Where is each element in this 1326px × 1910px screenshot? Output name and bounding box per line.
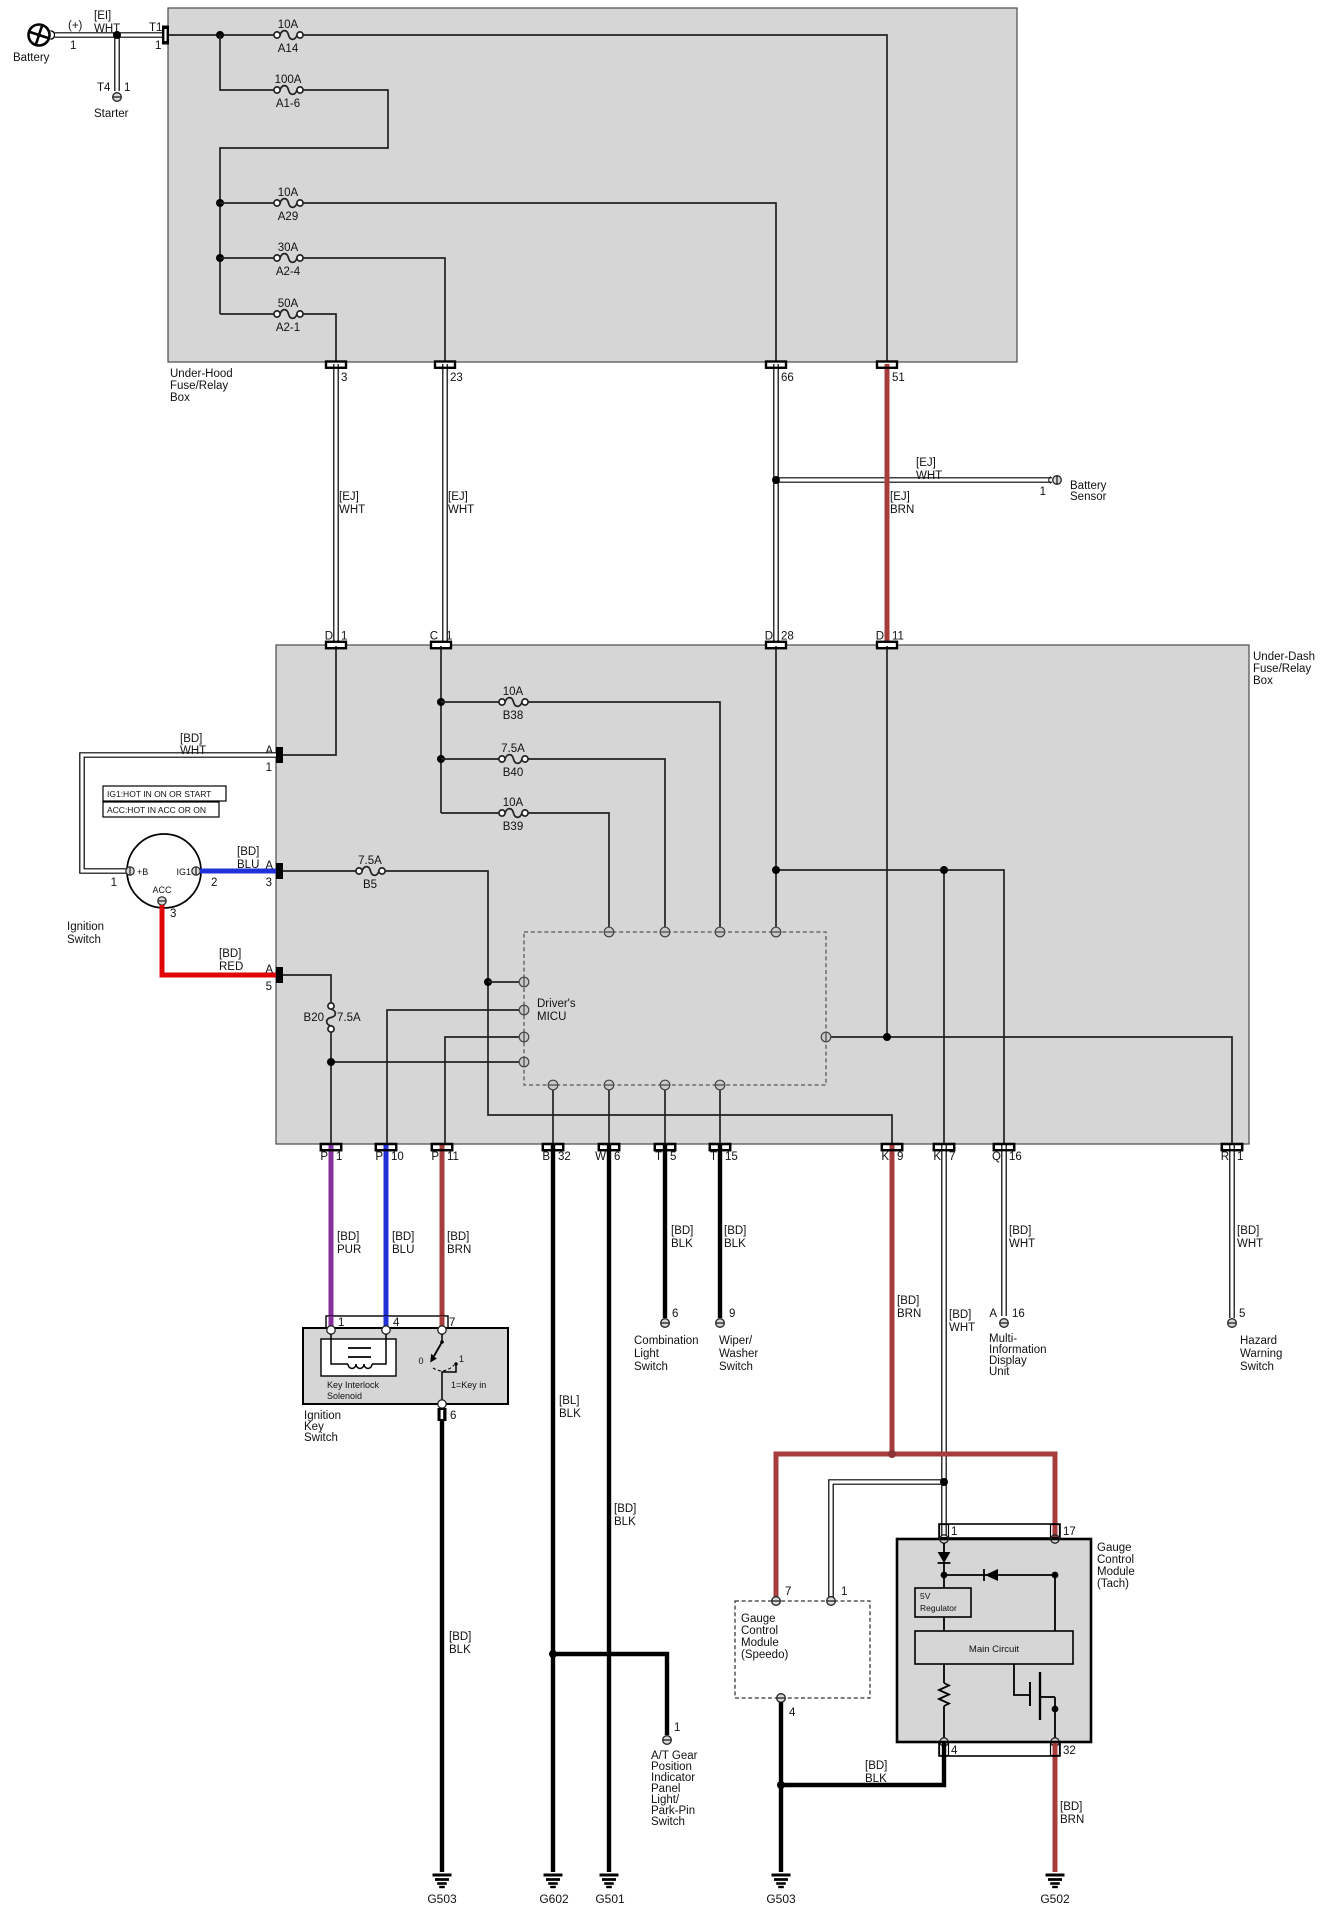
svg-text:Ignition: Ignition: [67, 921, 104, 933]
svg-text:10A: 10A: [278, 19, 299, 31]
AT gear position indicator panel light park-pin switch: [651, 1722, 698, 1828]
svg-text:1: 1: [338, 1317, 344, 1329]
svg-text:A14: A14: [278, 43, 299, 55]
connector A5: [265, 964, 283, 993]
svg-text:T4: T4: [97, 82, 111, 94]
combination light switch: [634, 1308, 699, 1373]
svg-text:A: A: [265, 860, 273, 872]
svg-text:Switch: Switch: [634, 1361, 668, 1373]
fuse 10A A29: [274, 187, 303, 223]
connector P11: [431, 1144, 459, 1163]
svg-text:Under-Dash: Under-Dash: [1253, 651, 1315, 663]
note box IG1 hot: [103, 786, 226, 801]
svg-text:1: 1: [155, 40, 161, 52]
svg-text:Switch: Switch: [651, 1816, 685, 1828]
svg-text:B39: B39: [503, 821, 523, 833]
MICU pin top 3: [715, 927, 725, 937]
connector T1: [149, 22, 169, 52]
svg-text:10A: 10A: [278, 187, 299, 199]
svg-text:B40: B40: [503, 767, 523, 779]
connector Q16: [992, 1144, 1022, 1163]
MICU pin bottom 4: [715, 1080, 725, 1090]
svg-text:A29: A29: [278, 211, 298, 223]
svg-text:+B: +B: [137, 867, 148, 877]
wire bus to fuse A2-1: [220, 313, 274, 315]
svg-text:B5: B5: [363, 879, 377, 891]
svg-text:G502: G502: [1040, 1892, 1070, 1906]
svg-text:(Tach): (Tach): [1097, 1578, 1129, 1590]
svg-text:30A: 30A: [278, 242, 299, 254]
svg-text:[BD]: [BD]: [447, 1231, 469, 1243]
wire to starter (WHT): [97, 35, 130, 94]
svg-text:P: P: [375, 1151, 383, 1163]
svg-text:K: K: [933, 1151, 941, 1163]
MICU pin left 4: [519, 1057, 529, 1067]
svg-text:66: 66: [781, 372, 794, 384]
svg-text:Control: Control: [741, 1625, 778, 1637]
svg-text:23: 23: [450, 372, 463, 384]
svg-text:10: 10: [391, 1151, 404, 1163]
svg-text:W: W: [595, 1151, 606, 1163]
note box ACC hot: [103, 802, 219, 817]
wire MICU pin to W6: [608, 1090, 610, 1145]
svg-text:[BD]: [BD]: [865, 1760, 887, 1772]
svg-text:BLK: BLK: [449, 1644, 471, 1656]
svg-text:A1-6: A1-6: [276, 98, 300, 110]
svg-text:Switch: Switch: [304, 1432, 338, 1444]
ground G602: [539, 1875, 569, 1906]
svg-text:Module: Module: [741, 1637, 779, 1649]
svg-text:1: 1: [336, 1151, 342, 1163]
svg-text:BRN: BRN: [447, 1244, 471, 1256]
wire MICU pin2 to P10: [387, 1010, 519, 1145]
wire IG1 to connector A3 (BD BLU): [200, 846, 276, 871]
svg-text:BRN: BRN: [897, 1308, 921, 1320]
svg-text:Switch: Switch: [1240, 1361, 1274, 1373]
MICU pin top 1: [604, 927, 614, 937]
svg-text:T: T: [655, 1151, 662, 1163]
svg-text:Box: Box: [1253, 675, 1273, 687]
wire W6 to G501 (BD BLK): [609, 1145, 636, 1872]
svg-text:0: 0: [418, 1356, 423, 1366]
svg-text:Hazard: Hazard: [1240, 1335, 1277, 1347]
svg-text:[BD]: [BD]: [897, 1295, 919, 1307]
gauge control module tach: [897, 1539, 1135, 1742]
wire K7 down (BD WHT): [944, 1145, 975, 1536]
node regulator junction: [941, 1572, 948, 1579]
wire bus to fuse A2-4: [220, 257, 274, 259]
svg-text:51: 51: [892, 372, 905, 384]
node K7 junction: [940, 866, 948, 874]
svg-text:50A: 50A: [278, 298, 299, 310]
svg-text:K: K: [881, 1151, 889, 1163]
wire junction to 5V regulator: [943, 1575, 945, 1588]
terminal 3: [326, 362, 347, 385]
node B20 junction: [327, 1058, 335, 1066]
svg-text:[BL]: [BL]: [559, 1395, 579, 1407]
svg-text:Box: Box: [170, 392, 190, 404]
svg-text:WHT: WHT: [949, 1322, 975, 1334]
svg-text:Battery: Battery: [13, 52, 50, 64]
under-hood fuse/relay box: [168, 8, 1017, 404]
MICU pin left 3: [519, 1032, 529, 1042]
svg-text:Combination: Combination: [634, 1335, 699, 1347]
svg-text:Sensor: Sensor: [1070, 491, 1107, 503]
wire B32 to G602 (BL BLK): [553, 1145, 581, 1872]
wire terminal 66 to D28 (EJ WHT): [773, 364, 779, 642]
wire P1 to key switch (BD PUR): [331, 1145, 361, 1326]
wire battery to T1 (WHT): [55, 32, 162, 38]
wiper washer switch: [716, 1308, 759, 1373]
connector R1: [1221, 1144, 1244, 1163]
wire fuse B5 down to K9 feed: [385, 871, 892, 1145]
under-dash fuse/relay box: [276, 645, 1315, 1144]
svg-text:4: 4: [789, 1707, 796, 1719]
wire K9 to gauge modules (BD BRN): [776, 1454, 1055, 1597]
svg-text:[EJ]: [EJ]: [890, 491, 910, 503]
wire P10 to key switch (BD BLU): [386, 1145, 414, 1326]
svg-text:[EJ]: [EJ]: [916, 457, 936, 469]
svg-text:6: 6: [450, 1410, 456, 1422]
fuse 50A A2-1: [274, 298, 303, 334]
svg-text:T1: T1: [149, 22, 162, 34]
svg-text:Key Interlock: Key Interlock: [327, 1380, 380, 1390]
svg-text:Switch: Switch: [67, 934, 101, 946]
tach bottom connector: [939, 1742, 1076, 1757]
wire pin17 rail to main circuit: [1054, 1575, 1056, 1631]
wire to fuse B38: [441, 701, 499, 703]
wire tach pin4 to ground run (BD BLK): [781, 1743, 944, 1785]
svg-text:Solenoid: Solenoid: [327, 1391, 362, 1401]
wire fuse B39 to MICU: [528, 813, 609, 927]
svg-text:Gauge: Gauge: [741, 1613, 776, 1625]
svg-text:WHT: WHT: [448, 504, 474, 516]
svg-text:A2-1: A2-1: [276, 322, 300, 334]
svg-text:P: P: [320, 1151, 328, 1163]
svg-text:15: 15: [725, 1151, 738, 1163]
node bus junction A29: [216, 199, 224, 207]
tach top connector: [939, 1524, 1076, 1538]
svg-text:1: 1: [266, 762, 272, 774]
svg-text:RED: RED: [219, 961, 243, 973]
wire B20 to P1: [330, 1032, 332, 1145]
connector W6: [595, 1144, 620, 1163]
svg-text:BLK: BLK: [614, 1516, 636, 1528]
svg-text:9: 9: [729, 1308, 735, 1320]
gauge control module speedo: [735, 1601, 870, 1698]
svg-text:(Speedo): (Speedo): [741, 1649, 788, 1661]
fuse 7.5A B20: [304, 1003, 361, 1032]
node D28 junction: [772, 866, 780, 874]
svg-text:[BD]: [BD]: [1060, 1801, 1082, 1813]
wire MICU pin3 to P11: [445, 1037, 519, 1145]
svg-text:7: 7: [449, 1317, 455, 1329]
svg-text:32: 32: [1063, 1745, 1076, 1757]
battery: [13, 10, 120, 64]
svg-text:Control: Control: [1097, 1554, 1134, 1566]
svg-text:[BD]: [BD]: [949, 1309, 971, 1321]
node C1 junction B40: [437, 755, 445, 763]
node ground junction: [777, 1781, 785, 1789]
svg-text:[BD]: [BD]: [1009, 1225, 1031, 1237]
connector T5: [655, 1144, 677, 1163]
svg-text:[BD]: [BD]: [237, 846, 259, 858]
svg-text:5V: 5V: [920, 1591, 931, 1601]
MICU pin bottom 2: [604, 1080, 614, 1090]
svg-text:BLK: BLK: [865, 1773, 887, 1785]
svg-text:[BD]: [BD]: [392, 1231, 414, 1243]
wire T5 to combination light switch (BD BLK): [665, 1145, 693, 1318]
svg-text:1: 1: [841, 1586, 847, 1598]
hazard warning switch: [1228, 1308, 1283, 1373]
wire P10 tail into band: [384, 1316, 389, 1326]
wire junction to MICU pin: [331, 1061, 519, 1063]
svg-text:3: 3: [341, 372, 347, 384]
connector P10: [375, 1144, 403, 1163]
svg-text:6: 6: [614, 1151, 620, 1163]
wire junction to MICU pin1: [488, 981, 519, 983]
svg-text:BLK: BLK: [559, 1408, 581, 1420]
svg-text:7.5A: 7.5A: [337, 1012, 361, 1024]
svg-text:1: 1: [951, 1526, 957, 1538]
svg-text:1: 1: [124, 82, 130, 94]
svg-text:IG1: IG1: [176, 867, 191, 877]
ignition switch terminal +B: [111, 867, 149, 889]
svg-text:WHT: WHT: [916, 470, 942, 482]
fuse 7.5A B40: [499, 743, 528, 779]
svg-text:WHT: WHT: [1009, 1238, 1035, 1250]
svg-text:[BD]: [BD]: [614, 1503, 636, 1515]
MICU pin left 2: [519, 1005, 529, 1015]
wire fuse A2-1 to terminal 3: [303, 314, 336, 362]
svg-text:A: A: [989, 1308, 997, 1320]
ignition switch terminal ACC: [152, 885, 176, 920]
svg-text:Warning: Warning: [1240, 1348, 1282, 1360]
svg-text:[BD]: [BD]: [1237, 1225, 1259, 1237]
wire T15 to wiper washer switch (BD BLK): [720, 1145, 746, 1318]
svg-text:Starter: Starter: [94, 108, 129, 120]
svg-text:Q: Q: [992, 1151, 1001, 1163]
svg-text:Unit: Unit: [989, 1366, 1010, 1378]
starter terminal: [94, 93, 129, 120]
node B32 junction: [549, 1650, 557, 1658]
svg-text:11: 11: [447, 1151, 459, 1163]
svg-text:G501: G501: [595, 1892, 625, 1906]
MICU pin top 4: [771, 927, 781, 937]
svg-text:1: 1: [674, 1722, 680, 1734]
node K7 branch junction: [940, 1478, 948, 1486]
connector C1: [430, 631, 453, 649]
svg-text:3: 3: [170, 908, 176, 920]
wire P11 to key switch (BD BRN): [442, 1145, 471, 1326]
wire branch to K7: [943, 870, 945, 1145]
svg-text:ACC:HOT IN ACC OR ON: ACC:HOT IN ACC OR ON: [107, 805, 206, 815]
battery sensor terminal: [1049, 476, 1107, 503]
wire fuse A2-4 to terminal 23: [303, 258, 445, 362]
svg-text:5: 5: [1239, 1308, 1245, 1320]
fuse 10A B38: [499, 686, 528, 722]
speedo pin 7: [772, 1586, 792, 1605]
svg-text:IG1:HOT IN ON OR START: IG1:HOT IN ON OR START: [107, 789, 211, 799]
node bus junction A2-4: [216, 254, 224, 262]
svg-text:16: 16: [1012, 1308, 1025, 1320]
svg-text:[EJ]: [EJ]: [448, 491, 468, 503]
fuse 10A B39: [499, 797, 528, 833]
svg-text:1: 1: [70, 40, 76, 52]
svg-text:6: 6: [672, 1308, 678, 1320]
svg-text:[BD]: [BD]: [337, 1231, 359, 1243]
svg-text:17: 17: [1063, 1526, 1076, 1538]
svg-text:7: 7: [785, 1586, 791, 1598]
svg-text:Main Circuit: Main Circuit: [969, 1644, 1020, 1655]
pin 4 key switch: [382, 1317, 400, 1334]
wire Q16 to display unit (BD WHT): [1004, 1145, 1035, 1316]
wire pin6 to G503 (BD BLK): [442, 1421, 471, 1872]
wire tach pin32 to G502 (BD BRN): [1055, 1743, 1084, 1872]
wire regulator to main circuit: [943, 1617, 945, 1631]
connector A1: [265, 745, 283, 774]
ground G503 (key switch): [427, 1875, 457, 1906]
MICU pin top 2: [660, 927, 670, 937]
wire MICU output to R1: [826, 1037, 1232, 1145]
wire fuse A14 to terminal 51: [303, 35, 887, 362]
ignition switch terminal IG1: [176, 867, 217, 889]
terminal 66: [766, 362, 794, 385]
svg-text:[EI]: [EI]: [94, 10, 111, 22]
wire bus down to 100A fuse: [220, 35, 274, 90]
connector D28: [765, 631, 794, 649]
svg-text:10A: 10A: [503, 797, 524, 809]
connector A3: [265, 860, 283, 889]
ground G501: [595, 1875, 625, 1906]
connector bar frames overlay: [321, 362, 1242, 1151]
svg-text:[BD]: [BD]: [449, 1631, 471, 1643]
svg-text:B: B: [542, 1151, 550, 1163]
wire MICU pin to B32: [552, 1090, 554, 1145]
svg-text:A: A: [265, 964, 273, 976]
wire fuse A29 to terminal 66: [303, 203, 776, 362]
transistor Q1 (MOSFET): [1014, 1664, 1058, 1738]
MICU pin right: [821, 1032, 831, 1042]
node B5 MICU junction: [484, 978, 492, 986]
node battery sensor junction: [772, 476, 780, 484]
svg-text:Switch: Switch: [719, 1361, 753, 1373]
svg-text:ACC: ACC: [152, 885, 172, 895]
ignition switch: [67, 834, 201, 946]
svg-text:[BD]: [BD]: [219, 948, 241, 960]
wire to battery sensor (EJ WHT): [776, 457, 1052, 498]
svg-text:Fuse/Relay: Fuse/Relay: [170, 380, 228, 392]
ground G502: [1040, 1875, 1070, 1906]
node pin17 rail junction: [1052, 1572, 1059, 1579]
wire MICU pin to T15: [719, 1090, 721, 1145]
svg-text:Regulator: Regulator: [920, 1603, 957, 1613]
svg-text:(+): (+): [68, 20, 83, 32]
MICU pin bottom 3: [660, 1080, 670, 1090]
svg-text:1: 1: [1040, 486, 1046, 498]
connector D1: [325, 631, 348, 649]
svg-text:BLU: BLU: [392, 1244, 414, 1256]
terminal 23: [435, 362, 463, 385]
node main bus junction: [216, 31, 224, 39]
wire terminal 3 to D1 (EJ WHT): [336, 364, 365, 642]
wire to AT gear position switch: [553, 1654, 667, 1735]
wire P1 tail into band: [329, 1316, 334, 1326]
diode to pin 17 rail: [984, 1569, 998, 1581]
svg-text:G602: G602: [539, 1892, 569, 1906]
node D11 junction: [883, 1033, 891, 1041]
wire to fuse B40: [441, 758, 499, 760]
connector D11: [876, 631, 904, 649]
svg-text:BRN: BRN: [1060, 1814, 1084, 1826]
wire T1 into box: [169, 34, 274, 36]
connector K9: [881, 1144, 903, 1163]
wire ACC to connector A5 (BD RED): [162, 905, 276, 975]
svg-text:[BD]: [BD]: [671, 1225, 693, 1237]
fuse 100A A1-6: [274, 74, 303, 110]
svg-text:Gauge: Gauge: [1097, 1542, 1132, 1554]
svg-text:3: 3: [266, 877, 272, 889]
svg-text:WHT: WHT: [339, 504, 365, 516]
tach pin 17: [1051, 1535, 1059, 1543]
tach pin 4: [940, 1738, 948, 1746]
connector K7: [933, 1144, 955, 1163]
tach pin 1: [940, 1535, 948, 1543]
svg-text:32: 32: [558, 1151, 571, 1163]
pin 1 key switch: [327, 1317, 345, 1334]
svg-text:P: P: [431, 1151, 439, 1163]
wire fuse B38 to MICU: [528, 702, 720, 927]
connector T15: [710, 1144, 738, 1163]
svg-text:WHT: WHT: [180, 745, 206, 757]
fuse 30A A2-4: [274, 242, 303, 278]
connector P1: [320, 1144, 342, 1163]
svg-text:16: 16: [1009, 1151, 1022, 1163]
pin 6 key switch: [438, 1400, 457, 1422]
MICU pin bottom 1: [548, 1080, 558, 1090]
svg-text:5: 5: [670, 1151, 676, 1163]
svg-text:1: 1: [111, 877, 117, 889]
connector B32: [542, 1144, 570, 1163]
wire regulator rail: [944, 1574, 1055, 1576]
terminal 51: [877, 362, 905, 385]
node C1 junction B38: [437, 698, 445, 706]
node battery junction: [113, 31, 121, 39]
wire MICU pin to T5: [664, 1090, 666, 1145]
speedo pin 1: [827, 1586, 848, 1605]
svg-text:Light: Light: [634, 1348, 660, 1360]
5V regulator U1: [915, 1588, 971, 1617]
svg-text:T: T: [710, 1151, 717, 1163]
svg-text:Wiper/: Wiper/: [719, 1335, 753, 1347]
svg-text:WHT: WHT: [1237, 1238, 1263, 1250]
svg-text:9: 9: [897, 1151, 903, 1163]
ignition key switch box: [303, 1316, 508, 1444]
wire bus to fuse A29: [220, 202, 274, 204]
svg-text:Under-Hood: Under-Hood: [170, 368, 233, 380]
svg-text:1: 1: [1237, 1151, 1243, 1163]
svg-text:G503: G503: [766, 1892, 796, 1906]
ground G503 (gauges): [766, 1875, 796, 1906]
svg-text:B20: B20: [304, 1012, 324, 1024]
MICU pin left 1: [519, 977, 529, 987]
svg-text:[EJ]: [EJ]: [339, 491, 359, 503]
wire A3 to fuse B5: [283, 870, 356, 872]
svg-text:BRN: BRN: [890, 504, 914, 516]
wire D1 to connector A1: [283, 646, 336, 755]
svg-text:PUR: PUR: [337, 1244, 361, 1256]
svg-text:7.5A: 7.5A: [501, 743, 525, 755]
